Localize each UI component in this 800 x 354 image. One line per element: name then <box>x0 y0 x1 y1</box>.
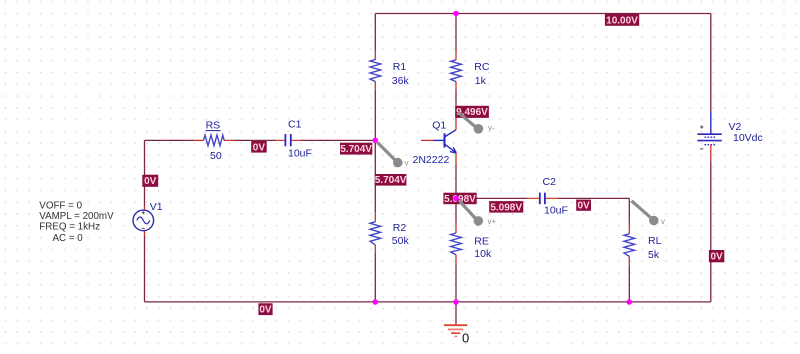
svg-text:VAMPL = 200mV: VAMPL = 200mV <box>39 211 114 222</box>
resistor R1 pin stubs <box>374 50 376 91</box>
svg-text:0V: 0V <box>577 201 590 212</box>
bias label 9.496V (collector) <box>455 106 489 118</box>
bias label 0V (after C2) <box>576 200 591 212</box>
svg-text:50: 50 <box>210 150 222 162</box>
svg-text:C2: C2 <box>543 176 557 188</box>
svg-text:V2: V2 <box>729 121 742 133</box>
svg-text:V1: V1 <box>150 201 163 213</box>
svg-text:RC: RC <box>474 61 490 73</box>
wire right rail lower <box>710 162 712 302</box>
label C1 <box>288 119 302 131</box>
svg-text:0V: 0V <box>259 305 272 316</box>
bias label 0V (V1 top) <box>142 175 158 188</box>
label R1 <box>393 61 407 73</box>
wire emitter vertical to RE <box>455 165 457 302</box>
svg-text:5k: 5k <box>648 249 660 261</box>
wire bottom rail <box>145 301 711 303</box>
junction ground node <box>453 299 459 305</box>
transistor Q1 emitter pin stub <box>455 153 457 166</box>
svg-text:36k: 36k <box>392 75 410 87</box>
capacitor C2 <box>540 193 545 205</box>
svg-text:R2: R2 <box>393 222 407 234</box>
transistor Q1 base pin stub <box>421 139 434 141</box>
svg-text:50k: 50k <box>392 235 410 247</box>
value 10uF (C2) <box>544 205 568 217</box>
resistor R1 <box>370 60 381 82</box>
value 1k <box>475 75 487 87</box>
svg-text:0: 0 <box>462 331 469 346</box>
svg-text:RL: RL <box>648 235 662 247</box>
label RE <box>474 235 489 247</box>
capacitor C2 pin stubs <box>527 197 558 199</box>
bias label 10.00V (top rail) <box>605 14 639 26</box>
wire R2 branch vertical <box>374 140 376 302</box>
svg-text:v: v <box>405 159 409 168</box>
source V1 (VSIN) <box>133 210 154 231</box>
svg-text:10uF: 10uF <box>544 205 568 217</box>
value 36k <box>392 75 410 87</box>
resistor RE <box>451 233 462 255</box>
resistor RL pin stubs <box>628 223 630 266</box>
junction emitter node <box>453 196 459 202</box>
wire input row (to RS and C1) <box>145 139 376 141</box>
bias label 0V (right rail) <box>709 250 724 263</box>
label Q1 <box>432 120 446 132</box>
svg-text:v: v <box>661 217 665 226</box>
wire R1 branch vertical <box>374 14 376 141</box>
value 10Vdc <box>733 132 763 144</box>
svg-text:10Vdc: 10Vdc <box>733 132 763 144</box>
label RS (underlined) <box>206 120 221 132</box>
label V1 <box>150 201 163 213</box>
bias label 5.098V (emitter, second) <box>489 201 523 213</box>
probe marker at collector node (V-) <box>459 113 496 134</box>
resistor RS <box>204 135 225 146</box>
junction R2 bottom <box>373 299 379 305</box>
svg-text:10.00V: 10.00V <box>606 15 638 26</box>
svg-text:1k: 1k <box>475 75 487 87</box>
value 50k <box>392 235 410 247</box>
label R2 <box>393 222 407 234</box>
wire ground stub <box>455 302 457 325</box>
svg-text:0V: 0V <box>253 142 266 153</box>
source V2 lead <box>710 112 712 134</box>
svg-text:R1: R1 <box>393 61 407 73</box>
svg-text:v+: v+ <box>488 217 497 226</box>
capacitor C1 pin stubs <box>276 139 301 141</box>
svg-text:AC = 0: AC = 0 <box>53 233 84 244</box>
bias label 5.704V (input side) <box>340 143 372 155</box>
svg-text:C1: C1 <box>288 119 302 131</box>
junction RL bottom <box>627 299 633 305</box>
resistor RL <box>624 234 635 257</box>
wire RC branch vertical <box>455 14 457 105</box>
value 5k <box>648 249 660 261</box>
probe marker at emitter node (V+) <box>460 201 497 226</box>
source V1 pin stubs <box>144 206 146 237</box>
svg-text:10uF: 10uF <box>288 147 312 159</box>
label V2 <box>729 121 742 133</box>
transistor Q1 <box>434 130 457 153</box>
svg-text:5.704V: 5.704V <box>340 144 372 155</box>
resistor RC <box>451 60 462 82</box>
bias label 0V (bottom rail) <box>258 303 272 315</box>
junction base node <box>373 138 379 144</box>
probe marker at output node <box>632 201 666 226</box>
label RL <box>648 235 662 247</box>
svg-text:10k: 10k <box>474 248 492 260</box>
source V2 (VDC battery) <box>697 125 721 149</box>
capacitor C1 <box>285 134 290 146</box>
wire top rail <box>375 13 711 15</box>
svg-text:RE: RE <box>474 235 489 247</box>
svg-text:FREQ = 1kHz: FREQ = 1kHz <box>39 222 100 233</box>
svg-text:2N2222: 2N2222 <box>413 154 450 166</box>
value 10uF <box>288 147 312 159</box>
wire emitter row (to C2 and RL) <box>456 197 629 199</box>
wire right rail upper <box>710 14 712 113</box>
label RC <box>474 61 490 73</box>
note VSIN parameters <box>39 201 114 245</box>
source V2 bottom pin stub <box>710 145 712 162</box>
svg-text:Q1: Q1 <box>432 120 446 132</box>
transistor Q1 collector pin stub <box>455 104 457 130</box>
value 2N2222 <box>413 154 450 166</box>
svg-text:5.704V: 5.704V <box>375 175 407 186</box>
resistor RC pin stubs <box>455 50 457 91</box>
junction top (RC/V2 rail) <box>453 11 459 17</box>
svg-text:5.098V: 5.098V <box>490 202 522 213</box>
resistor R2 pin stubs <box>374 212 376 255</box>
svg-text:0V: 0V <box>710 252 723 263</box>
probe marker at base node <box>378 143 409 168</box>
value 10k <box>474 248 492 260</box>
resistor RS pin stubs <box>194 139 234 141</box>
label 0 (ground net) <box>462 331 469 346</box>
bias label 0V (before C1) <box>251 141 267 153</box>
svg-text:0V: 0V <box>144 176 157 187</box>
wire RL branch vertical <box>628 198 630 302</box>
value 50 <box>210 150 222 162</box>
svg-text:v-: v- <box>488 124 495 133</box>
resistor R2 <box>370 222 381 245</box>
bias label 5.704V (base) <box>375 174 407 186</box>
resistor RE pin stubs <box>455 223 457 265</box>
ground 0 symbol <box>444 325 467 336</box>
bias label 5.098V (emitter node) <box>443 193 476 205</box>
label C2 <box>543 176 557 188</box>
wire left vertical (V1 branch) <box>144 140 146 302</box>
svg-text:RS: RS <box>206 120 221 132</box>
